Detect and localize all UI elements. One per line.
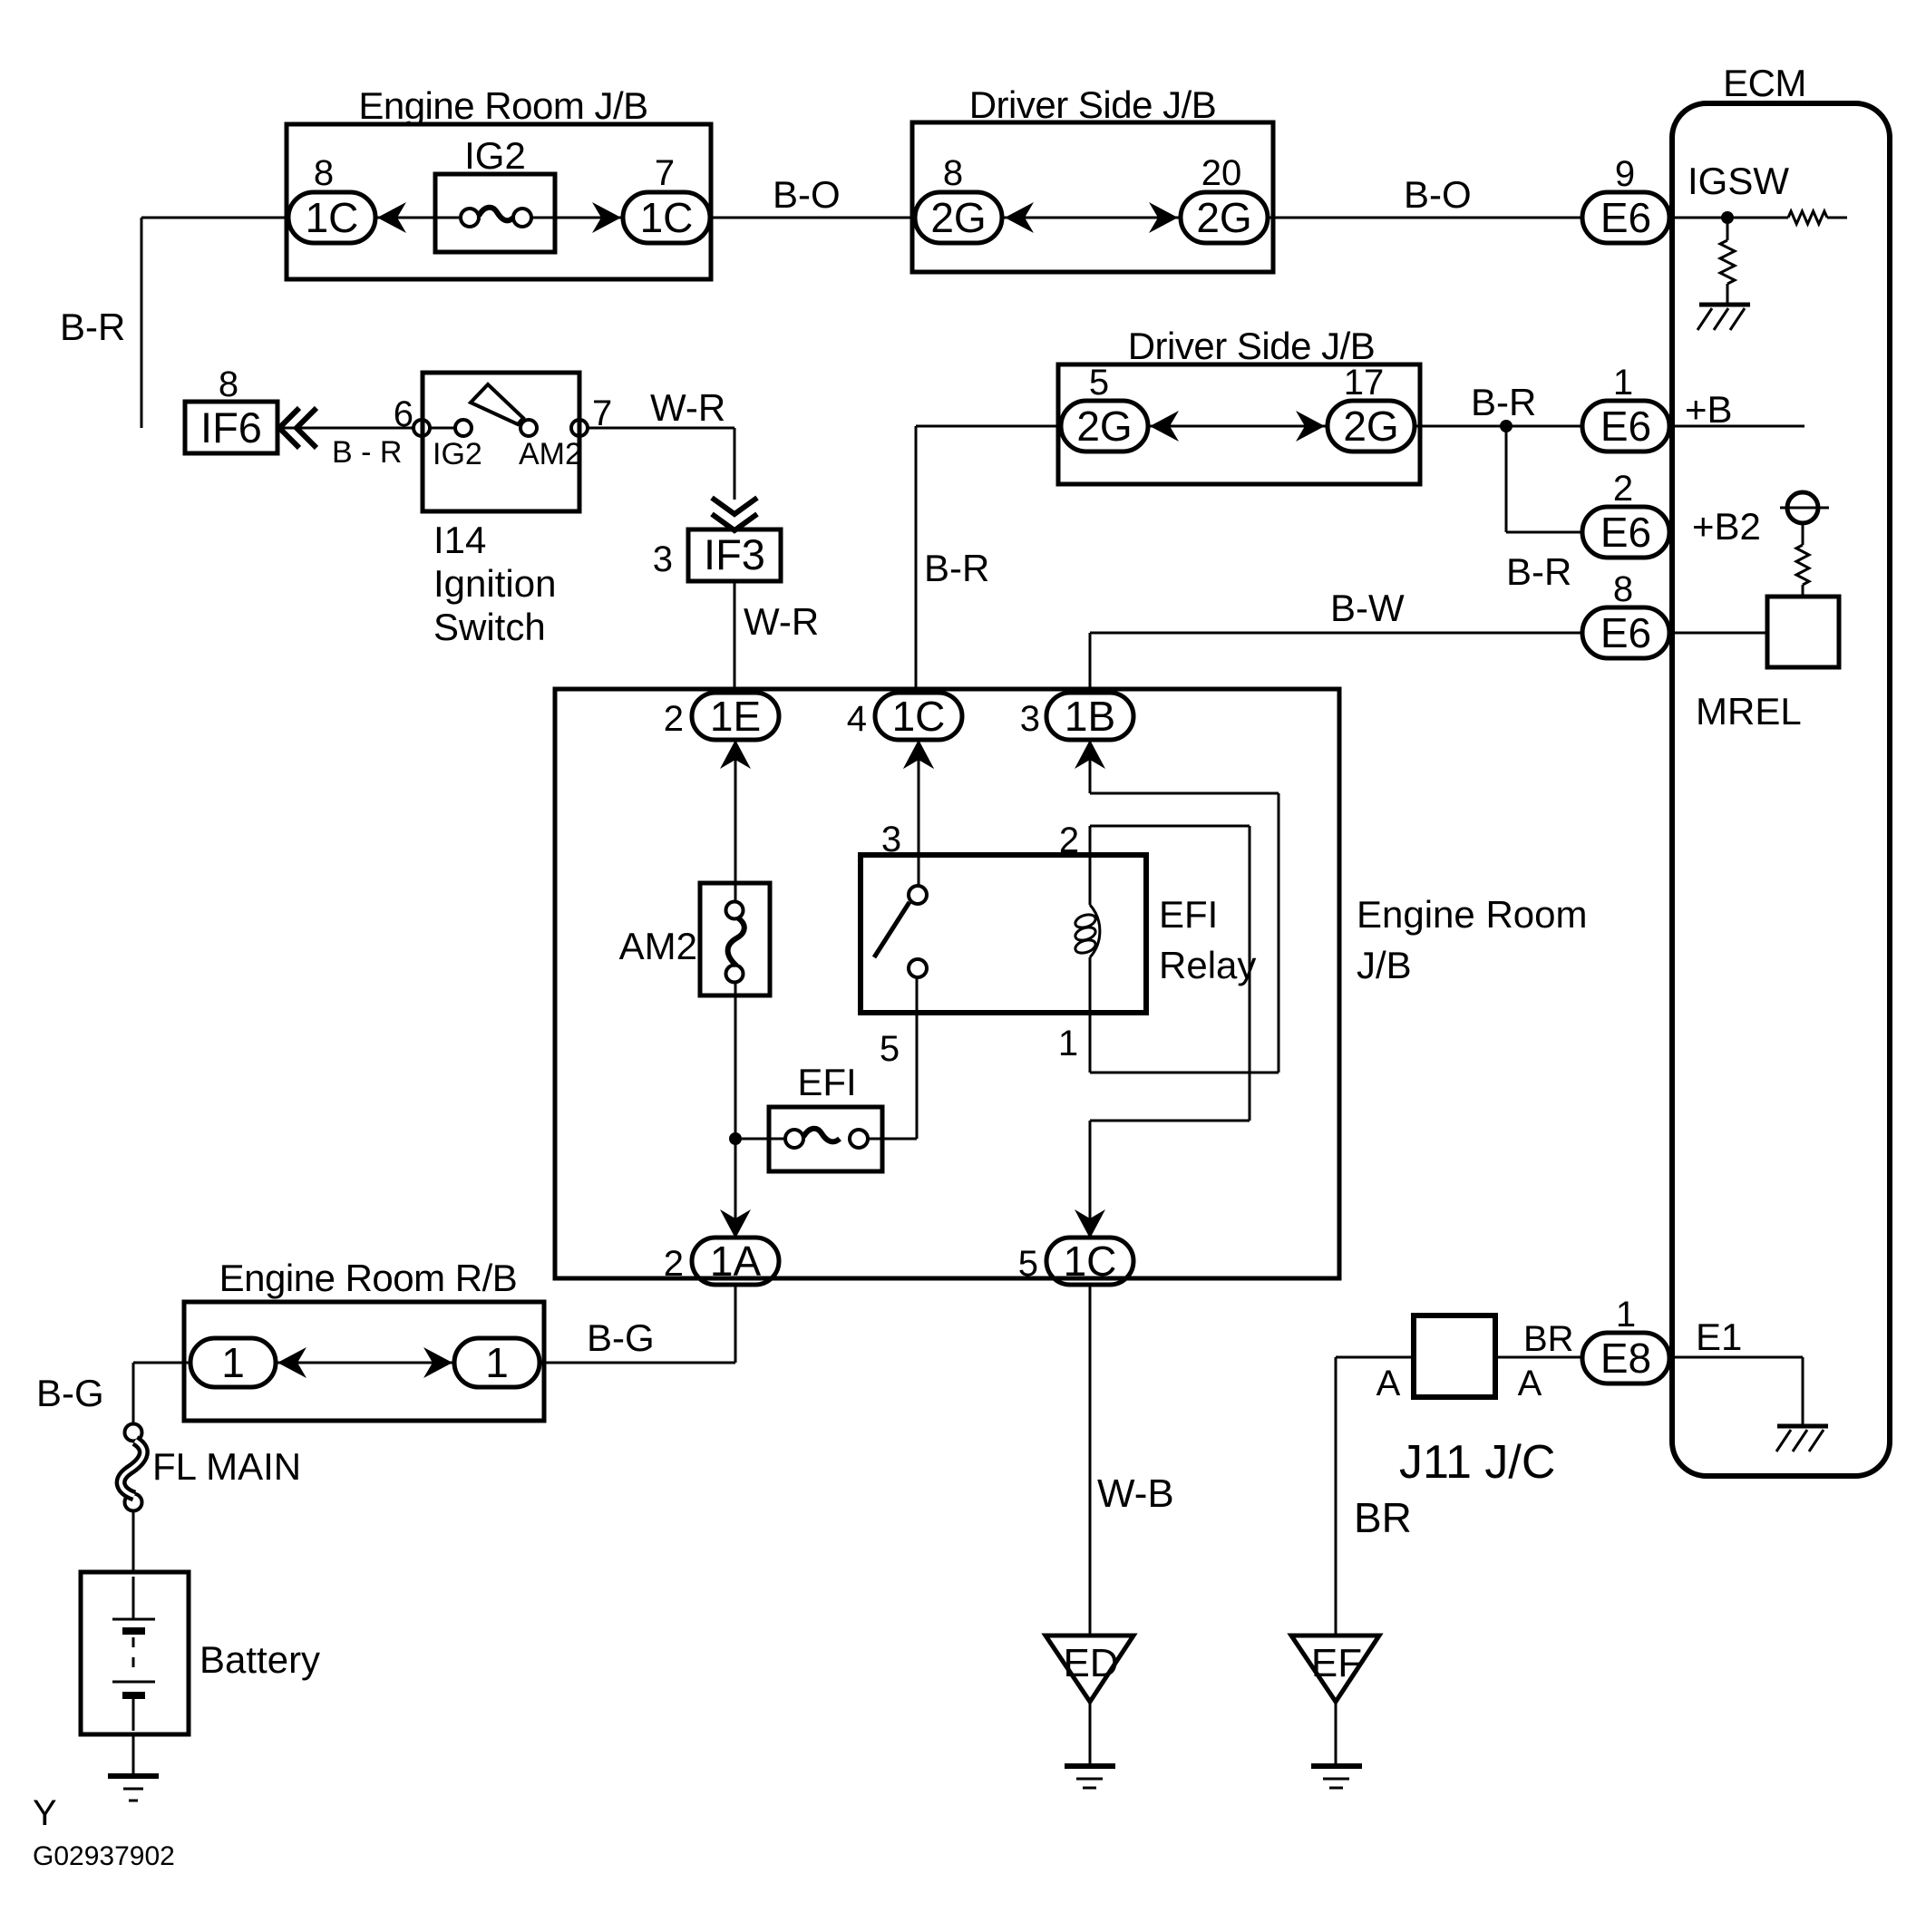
svg-text:J/B: J/B — [1357, 944, 1412, 986]
svg-text:Engine Room R/B: Engine Room R/B — [219, 1257, 518, 1299]
svg-text:G02937902: G02937902 — [33, 1841, 175, 1871]
svg-text:Switch: Switch — [433, 606, 546, 648]
svg-text:8: 8 — [943, 153, 963, 193]
svg-text:6: 6 — [394, 394, 413, 434]
svg-text:3: 3 — [881, 820, 901, 859]
svg-text:B - R: B - R — [332, 435, 402, 470]
svg-text:A: A — [1518, 1364, 1542, 1403]
svg-text:E6: E6 — [1600, 194, 1651, 241]
svg-text:B-R: B-R — [1471, 381, 1536, 423]
svg-text:9: 9 — [1615, 154, 1635, 194]
svg-text:1C: 1C — [892, 693, 946, 740]
svg-text:Ignition: Ignition — [433, 562, 556, 605]
svg-text:Relay: Relay — [1159, 944, 1256, 986]
svg-text:8: 8 — [219, 364, 238, 404]
svg-text:1C: 1C — [306, 194, 359, 241]
svg-text:Driver Side J/B: Driver Side J/B — [969, 83, 1217, 126]
svg-text:E6: E6 — [1600, 609, 1651, 656]
svg-text:E1: E1 — [1696, 1316, 1742, 1358]
svg-text:E6: E6 — [1600, 403, 1651, 450]
svg-text:B-G: B-G — [36, 1372, 104, 1414]
svg-text:2: 2 — [1059, 820, 1079, 860]
svg-text:W-B: W-B — [1097, 1471, 1174, 1516]
svg-text:B-R: B-R — [924, 547, 989, 589]
svg-text:B-O: B-O — [773, 173, 841, 216]
svg-text:BR: BR — [1354, 1494, 1412, 1541]
svg-text:1: 1 — [1616, 1295, 1636, 1335]
svg-text:ECM: ECM — [1723, 62, 1806, 104]
svg-text:+B2: +B2 — [1692, 505, 1761, 548]
svg-text:2: 2 — [664, 1244, 684, 1284]
svg-text:EF: EF — [1311, 1641, 1362, 1685]
svg-text:B-W: B-W — [1330, 587, 1405, 629]
svg-text:B-R: B-R — [60, 306, 125, 348]
svg-text:W-R: W-R — [744, 600, 819, 643]
svg-text:IG2: IG2 — [433, 437, 482, 471]
svg-text:1C: 1C — [640, 194, 694, 241]
svg-text:AM2: AM2 — [619, 925, 697, 967]
svg-text:E6: E6 — [1600, 509, 1651, 556]
svg-text:1A: 1A — [710, 1238, 762, 1285]
svg-text:+B: +B — [1685, 388, 1733, 431]
svg-text:7: 7 — [655, 153, 675, 193]
svg-text:2: 2 — [1613, 469, 1633, 509]
svg-text:8: 8 — [1613, 569, 1633, 609]
svg-text:5: 5 — [880, 1029, 900, 1069]
svg-text:W-R: W-R — [650, 386, 725, 429]
svg-text:3: 3 — [1020, 699, 1040, 739]
svg-text:B-R: B-R — [1506, 550, 1571, 593]
svg-text:1: 1 — [221, 1339, 245, 1386]
svg-text:B-G: B-G — [587, 1316, 655, 1359]
svg-text:1E: 1E — [710, 693, 761, 740]
svg-text:FL MAIN: FL MAIN — [152, 1445, 301, 1488]
svg-text:Driver Side J/B: Driver Side J/B — [1128, 325, 1376, 367]
svg-text:2G: 2G — [930, 194, 986, 241]
svg-text:AM2: AM2 — [519, 437, 582, 471]
svg-text:5: 5 — [1018, 1244, 1038, 1284]
svg-text:8: 8 — [314, 153, 334, 193]
svg-text:4: 4 — [847, 699, 867, 739]
svg-text:2G: 2G — [1196, 194, 1251, 241]
svg-text:IGSW: IGSW — [1688, 160, 1789, 202]
svg-text:1: 1 — [485, 1339, 509, 1386]
svg-text:1C: 1C — [1064, 1238, 1117, 1285]
svg-text:BR: BR — [1523, 1319, 1574, 1359]
svg-text:ED: ED — [1063, 1641, 1118, 1685]
svg-text:Engine Room: Engine Room — [1357, 893, 1587, 936]
svg-text:MREL: MREL — [1696, 690, 1802, 733]
svg-text:E8: E8 — [1600, 1335, 1651, 1382]
svg-text:A: A — [1376, 1364, 1401, 1403]
svg-text:Y: Y — [33, 1793, 57, 1833]
svg-text:1: 1 — [1058, 1024, 1078, 1063]
svg-text:EFI: EFI — [797, 1061, 856, 1103]
svg-text:I14: I14 — [433, 519, 486, 561]
svg-text:1: 1 — [1613, 363, 1633, 403]
svg-text:7: 7 — [592, 393, 612, 433]
svg-text:5: 5 — [1089, 363, 1109, 403]
svg-text:Engine Room J/B: Engine Room J/B — [358, 84, 647, 127]
svg-text:2G: 2G — [1076, 403, 1132, 450]
svg-text:IF6: IF6 — [200, 403, 262, 451]
svg-text:IF3: IF3 — [704, 530, 765, 578]
svg-text:B-O: B-O — [1404, 173, 1472, 216]
svg-text:3: 3 — [653, 539, 673, 579]
svg-text:Battery: Battery — [199, 1638, 320, 1681]
svg-text:2: 2 — [664, 699, 684, 739]
svg-text:J11 J/C: J11 J/C — [1399, 1436, 1555, 1489]
svg-text:IG2: IG2 — [464, 134, 526, 177]
svg-text:EFI: EFI — [1159, 893, 1218, 936]
svg-text:2G: 2G — [1343, 403, 1398, 450]
svg-text:1B: 1B — [1065, 693, 1115, 740]
svg-text:17: 17 — [1344, 363, 1385, 403]
svg-text:20: 20 — [1201, 153, 1242, 193]
